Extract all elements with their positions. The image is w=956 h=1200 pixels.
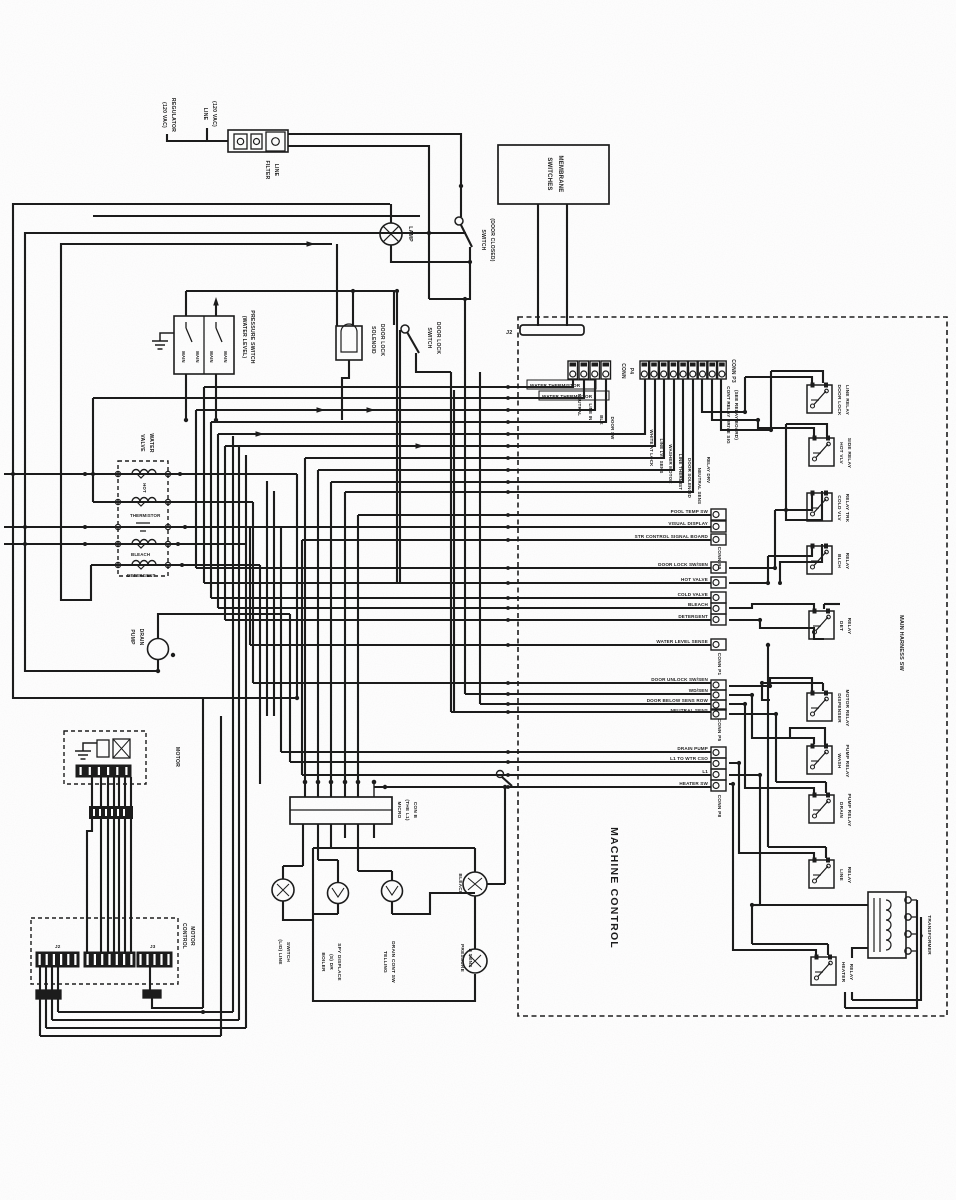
pressure switch contacts [186, 322, 222, 342]
wire P3-7 to relay K1 [702, 379, 745, 412]
svg-text:DETERGENT: DETERGENT [127, 573, 156, 578]
wire bleach to pressure sensor [474, 896, 476, 949]
wire to K3 pin 2 [786, 491, 822, 520]
junction bottom rail [201, 1010, 205, 1014]
svg-text:LINE: LINE [202, 108, 208, 121]
svg-text:L1 TO WTR CSO: L1 TO WTR CSO [670, 756, 708, 761]
bleach sensor [463, 872, 487, 896]
pressure switch bottom pins [185, 374, 187, 420]
svg-text:WD/SEN: WD/SEN [689, 688, 709, 693]
svg-text:DOOR SW: DOOR SW [610, 417, 615, 441]
junction arrow 2 [367, 407, 376, 413]
wire P4-3 [196, 379, 595, 410]
wire P4-4 [211, 379, 606, 422]
motor controller strip J3 [137, 952, 172, 967]
svg-text:SWITCH: SWITCH [426, 328, 432, 349]
signal wire y712 [451, 711, 711, 713]
bus wire X2 [453, 390, 455, 712]
svg-text:BLEACH: BLEACH [688, 602, 709, 607]
svg-text:HEATER: HEATER [840, 962, 846, 983]
junction arrow 5 [416, 443, 425, 449]
relay K8 [809, 795, 834, 823]
wire K1 contact feed [771, 371, 823, 383]
bus wire J to micro connector [344, 492, 346, 797]
junction L1 corner [295, 696, 299, 700]
wire P1-2 to K4 [729, 582, 768, 584]
svg-text:WASHER MOTOR: WASHER MOTOR [668, 444, 673, 484]
svg-text:CONN P1: CONN P1 [716, 653, 722, 676]
svg-text:SIDE RELAY: SIDE RELAY [846, 438, 852, 469]
wire to K4 pin 2 [780, 544, 822, 583]
wire from line label [206, 128, 208, 141]
drain motor switch [382, 881, 403, 902]
svg-text:RELAY: RELAY [844, 553, 850, 570]
svg-text:(WATER LEVEL): (WATER LEVEL) [241, 316, 247, 359]
svg-text:RELAY: RELAY [846, 618, 852, 635]
svg-text:MAIN: MAIN [195, 351, 200, 363]
connector P5 [711, 680, 726, 690]
wire P4-1 to water thermistor line [204, 379, 573, 387]
svg-text:MAIN: MAIN [181, 351, 186, 363]
wire to bleach sensor [392, 893, 475, 914]
svg-text:B SENS: B SENS [467, 948, 473, 968]
svg-text:PUMP RELAY: PUMP RELAY [844, 745, 850, 779]
svg-text:RELAY: RELAY [846, 867, 852, 884]
svg-text:MOTOR: MOTOR [189, 926, 195, 946]
machine control board dashed outline [518, 317, 947, 1016]
svg-text:(S) DR: (S) DR [328, 954, 334, 970]
svg-text:BLCH: BLCH [836, 554, 842, 568]
bus wire V [479, 372, 481, 704]
svg-text:HOT VALVE: HOT VALVE [681, 577, 708, 582]
wire door lock switch bottom [416, 353, 451, 372]
wire P1-1 to K3 [729, 567, 775, 569]
svg-text:CONN P8: CONN P8 [716, 795, 722, 818]
bus wire B [92, 398, 94, 502]
wire bottom loop top [313, 847, 475, 849]
bus wire Q [280, 527, 282, 752]
svg-text:MOTOR RELAY: MOTOR RELAY [844, 689, 850, 727]
svg-text:NEUTRAL SENS: NEUTRAL SENS [671, 708, 708, 713]
signal wire y608 [218, 607, 711, 609]
svg-text:TRANSFORMER: TRANSFORMER [926, 915, 932, 955]
wire to K5 pin [729, 604, 814, 609]
wire K6 pin 2 [822, 683, 824, 691]
wire rail riser 4 [57, 999, 59, 1012]
svg-text:CONN P5: CONN P5 [716, 719, 722, 742]
wire rail riser 2 [45, 999, 47, 1028]
svg-text:MOTOR: MOTOR [174, 747, 180, 767]
ground symbol [160, 333, 174, 341]
svg-text:DRAIN: DRAIN [138, 629, 144, 646]
trunk wire to bottom rail 3 [245, 455, 247, 1028]
relay K4 [807, 546, 832, 574]
trunk wire to bottom rail 1 [232, 436, 234, 1012]
bus wire C [195, 410, 197, 568]
svg-text:J3: J3 [150, 944, 156, 949]
motor pin strip [76, 765, 131, 777]
wire transformer secondary 1 [845, 900, 917, 1008]
svg-text:J2: J2 [506, 330, 512, 336]
svg-text:(120 VAC): (120 VAC) [211, 101, 217, 127]
wire lid switch bottom [283, 901, 313, 920]
wire K8 pin 2 [825, 782, 827, 793]
wire drain pump bottom [157, 660, 159, 671]
wire K2 coil feed [758, 420, 814, 436]
wire drain motor top [391, 871, 393, 880]
svg-text:CONT RELAY DRIVE SIG: CONT RELAY DRIVE SIG [726, 386, 731, 444]
svg-text:MACHINE CONTROL: MACHINE CONTROL [608, 827, 620, 949]
wire P5-2 to K7 [729, 695, 814, 744]
wire filter to junction [288, 146, 429, 299]
pressure switch top pins [215, 302, 217, 316]
svg-text:DETERGENT: DETERGENT [678, 614, 708, 619]
door closed switch [455, 217, 463, 225]
motor controller dashed box [31, 918, 178, 984]
wire lamp top [390, 204, 392, 223]
svg-text:LINE: LINE [838, 869, 844, 881]
svg-text:LINE RELAY: LINE RELAY [844, 385, 850, 416]
wire transformer stub [844, 992, 846, 1008]
wire K6 aux [762, 683, 770, 700]
bus wire O [266, 481, 268, 716]
svg-text:SPY DISPLACE: SPY DISPLACE [336, 943, 342, 981]
svg-text:MAIN: MAIN [223, 351, 228, 363]
svg-text:RELAY: RELAY [848, 964, 854, 981]
junction to loop [313, 913, 338, 915]
svg-text:DOOR LOCK: DOOR LOCK [379, 324, 385, 357]
relay K3 [807, 493, 832, 521]
wire transformer secondary 2 [852, 917, 921, 1000]
bus wire M [252, 502, 254, 683]
water valve junction dots [83, 472, 87, 476]
micro bar top stubs [304, 782, 306, 797]
bus wire P [273, 491, 275, 716]
svg-text:BLEACH: BLEACH [131, 552, 150, 557]
wire P3-4 [318, 379, 674, 470]
signal wire y645 [250, 644, 711, 646]
svg-text:DOOR LOCK: DOOR LOCK [836, 384, 842, 415]
bus wire K to micro connector [357, 515, 359, 797]
svg-text:NEUTRAL SENS: NEUTRAL SENS [697, 468, 702, 504]
wire filter to door closed switch [288, 134, 461, 217]
signal wire y683 [253, 682, 711, 684]
svg-text:HOT VLV: HOT VLV [838, 442, 844, 464]
bus wire N [259, 565, 261, 784]
svg-text:(SEE RELAY BOARD): (SEE RELAY BOARD) [734, 390, 739, 440]
relay K2 [809, 438, 834, 466]
bus wire F [224, 446, 226, 620]
junction on line L2 [427, 231, 431, 235]
pressure sensor [463, 949, 487, 973]
svg-text:HOT: HOT [142, 483, 147, 493]
svg-text:CONN: CONN [620, 363, 626, 379]
svg-text:DOOR LOCK: DOOR LOCK [435, 322, 441, 355]
svg-text:THERMISTOR: THERMISTOR [130, 513, 161, 518]
signal wire y620 [225, 619, 711, 621]
svg-text:J2: J2 [55, 944, 61, 949]
wire lamp bottom to switch drop [391, 245, 470, 262]
line filter FL1 [228, 130, 288, 152]
junction arrow 3 [307, 241, 316, 247]
bottom rail 2 [52, 1019, 239, 1021]
svg-text:(LID) LINE: (LID) LINE [277, 939, 283, 965]
soap dispenser motor [328, 883, 349, 904]
svg-text:SWITCHES: SWITCHES [546, 157, 552, 190]
wire membrane to J2 ribbon 2 [566, 204, 568, 326]
svg-text:(THE L1): (THE L1) [404, 799, 410, 821]
wire P4-2 to water thermistor line 2 [93, 379, 584, 398]
svg-text:CON B: CON B [412, 802, 418, 819]
signal wire y694 [465, 693, 711, 695]
trunk wire L2 [25, 233, 466, 671]
pressure switch box [174, 316, 234, 374]
svg-text:PUMP: PUMP [129, 629, 135, 645]
signal wire y762 [290, 761, 711, 763]
svg-text:DISPENSER: DISPENSER [836, 693, 842, 723]
membrane switches box [498, 145, 609, 204]
svg-text:BOILER: BOILER [320, 952, 326, 972]
svg-text:DRAIN: DRAIN [838, 802, 844, 819]
bus wire D [210, 422, 212, 598]
label WATER THERMISTOR 2 [539, 391, 609, 400]
wire K7 pin 2 [824, 738, 826, 744]
bus wire H to micro connector [317, 470, 319, 797]
svg-text:REGULATOR: REGULATOR [170, 98, 176, 132]
wire K9 pin 2 [825, 847, 827, 858]
svg-text:(DOOR CLOSED): (DOOR CLOSED) [489, 218, 495, 261]
bottom rail 1 [58, 1011, 233, 1013]
wire P3-1 [218, 379, 645, 434]
wire P3-5 [331, 379, 683, 482]
svg-text:DOOR BELOW SENS ROW: DOOR BELOW SENS ROW [647, 698, 709, 703]
wire P8-3 to transformer [729, 775, 868, 905]
motor controller aux connector [143, 990, 161, 998]
bus wire G to micro connector [304, 458, 306, 797]
wire door lock switch drop [450, 372, 452, 712]
svg-text:BLEACH: BLEACH [457, 873, 463, 895]
wire P3-6 [345, 379, 693, 492]
svg-text:COLD VALVE: COLD VALVE [678, 592, 708, 597]
svg-text:MAIN HARNESS SW: MAIN HARNESS SW [898, 615, 904, 671]
signal wire y598 [211, 597, 711, 599]
connector P8 [711, 747, 726, 758]
wire valve row 3 [4, 526, 711, 528]
wire valve row 5 [91, 564, 260, 566]
svg-text:LAMP: LAMP [407, 226, 413, 242]
wire P5-1 to K6 [729, 678, 812, 691]
svg-text:SWITCH: SWITCH [285, 942, 291, 962]
wire P1-5 to K5 [729, 620, 824, 639]
motor controller strip J1 [36, 952, 79, 967]
motor controller bottom pins [39, 967, 41, 992]
label WATER THERMISTOR 1 [527, 380, 596, 389]
svg-text:LINE IN: LINE IN [588, 403, 593, 420]
wire to K4 pin [768, 544, 812, 556]
signal wire y583 [204, 582, 711, 584]
signal wire y515 [358, 514, 711, 516]
svg-text:POOL TEMP SW: POOL TEMP SW [671, 509, 709, 514]
wire K2 contact feed [786, 424, 827, 436]
wire to K3 pin [775, 491, 812, 510]
trunk wire to bottom rail 4 [220, 716, 222, 1036]
wire bleach sensor right [487, 883, 505, 885]
motor harness bundle [87, 777, 92, 952]
wire dispenser top [337, 860, 339, 882]
wire from regulator label to line filter [167, 134, 228, 141]
wire P8-4 to K10 [729, 784, 816, 955]
svg-text:SOLENOID: SOLENOID [370, 326, 376, 354]
svg-text:TELLING: TELLING [382, 951, 388, 973]
connector P2 [711, 509, 726, 520]
wire rail riser 3 [51, 999, 53, 1020]
wire P3-9 to relay K2 bus [721, 379, 771, 430]
label motor harness [89, 806, 133, 819]
wire J3 drop [149, 967, 151, 990]
signal wire y527 [4, 526, 711, 528]
micro bar bottom drops [302, 824, 304, 866]
signal wire y568 [196, 567, 711, 569]
svg-text:LINE: LINE [273, 164, 279, 177]
svg-text:CONN P3: CONN P3 [730, 359, 736, 383]
relay K5 [809, 611, 834, 639]
svg-text:P4: P4 [628, 368, 634, 375]
svg-text:SWITCH: SWITCH [480, 230, 486, 251]
wire bleach sensor top [474, 848, 476, 872]
wire drain motor bottom [391, 901, 393, 914]
svg-text:PUMP RELAY: PUMP RELAY [846, 794, 852, 828]
wire P3-3 [305, 379, 664, 458]
wire valve row 4 [4, 543, 246, 545]
wire door lock solenoid bottom [342, 360, 349, 420]
signal wire y752 [281, 751, 711, 753]
wire door closed switch drop [429, 247, 470, 299]
motor dashed box [64, 731, 146, 784]
svg-text:DRAIN CONT SW: DRAIN CONT SW [390, 941, 396, 983]
bus wire W [396, 291, 398, 583]
signal wire y787 [374, 786, 711, 788]
wire to K5 pin 2 [823, 604, 825, 609]
trunk wire right of motor controller [202, 698, 204, 1008]
signal wire y704 [480, 703, 711, 705]
water valve solenoid coils [132, 470, 156, 475]
wire P8-2 to K9 [729, 763, 814, 858]
junction dots relay zone [743, 410, 747, 414]
wire K10 pin 2 [827, 944, 829, 955]
svg-text:VALVE: VALVE [139, 434, 145, 452]
svg-text:FILTER: FILTER [264, 161, 270, 180]
svg-text:PRESSURE SWITCH: PRESSURE SWITCH [249, 310, 255, 363]
svg-text:MEMBRANE: MEMBRANE [557, 156, 563, 193]
door lock switch [401, 325, 409, 333]
svg-text:MICRO: MICRO [396, 802, 402, 819]
bus wire S [296, 474, 298, 698]
trunk wire L1 [13, 204, 390, 698]
svg-text:WHITE AT LOCK: WHITE AT LOCK [649, 430, 654, 468]
wire transformer primary stub [852, 948, 868, 958]
drain pump [148, 639, 169, 660]
svg-text:L1: L1 [702, 769, 708, 774]
svg-text:VISUAL DISPLAY: VISUAL DISPLAY [668, 521, 708, 526]
bus wire relay column [767, 645, 769, 847]
junction on door switch feed [459, 184, 463, 188]
wire aux to trunk [152, 998, 203, 1008]
water valve dashed box [118, 461, 168, 576]
svg-text:PRESSURE: PRESSURE [459, 944, 465, 973]
svg-text:(120 VAC): (120 VAC) [161, 102, 167, 128]
svg-text:BLK: BLK [599, 415, 604, 425]
motor controller strip J2 [84, 952, 135, 967]
bus wire R [289, 614, 291, 762]
motor internals [83, 743, 97, 751]
micro connector bar [290, 797, 392, 824]
wire rail riser 1 [39, 999, 41, 1036]
transformer T1 [868, 892, 906, 958]
transformer pins [905, 897, 911, 903]
bus wire A [203, 387, 205, 583]
trunk wire to bottom rail 2 [238, 446, 240, 1020]
svg-text:MAIN: MAIN [209, 351, 214, 363]
heater switch [497, 771, 504, 778]
svg-text:HEATER SW: HEATER SW [679, 781, 708, 786]
junction arrow 1 [317, 407, 326, 413]
svg-text:RELAY DRV: RELAY DRV [706, 457, 711, 484]
connector P4 [568, 361, 578, 379]
wire to door lock switch [186, 291, 394, 325]
wire K1 coil feed [745, 377, 812, 383]
wire drain pump top [158, 614, 290, 638]
wire pressure switch to bus [93, 215, 420, 217]
wire P3-8 to relay K2 [712, 379, 758, 420]
water valve pin circles [115, 471, 120, 476]
relay K10 [811, 957, 836, 985]
wire valve row 2 [93, 501, 253, 503]
thermistor symbol [136, 523, 150, 531]
wire P5-3 to K8 [729, 704, 814, 793]
lamp [380, 223, 402, 245]
svg-text:CONTROL: CONTROL [181, 923, 187, 949]
signal wire y540 [302, 539, 711, 541]
svg-text:WASH: WASH [836, 753, 842, 769]
bottom rail 4 [40, 1035, 221, 1037]
bus wire W2 [399, 330, 401, 583]
lid switch sensor [272, 879, 294, 901]
svg-text:COLD VLV: COLD VLV [836, 495, 842, 521]
wire P3-2 [225, 379, 655, 446]
wire L1 heater line [374, 786, 711, 788]
bottom rail 3 [46, 1027, 246, 1029]
bus wire L [249, 527, 251, 645]
junction at drain pump [171, 653, 175, 657]
door lock solenoid [336, 326, 362, 360]
svg-text:DRAIN PUMP: DRAIN PUMP [677, 746, 708, 751]
relay K6 [807, 693, 832, 721]
bus wire U [464, 299, 466, 694]
wire membrane to J2 ribbon [537, 204, 539, 326]
trunk wire L3 [61, 244, 332, 600]
wire dispenser bottom [337, 903, 339, 914]
relay K7 [807, 746, 832, 774]
motor controller output connector [36, 990, 61, 999]
bus wire T [301, 540, 303, 775]
svg-text:WATER LEVEL SENSE: WATER LEVEL SENSE [656, 639, 708, 644]
bus wire I to micro connector [330, 482, 332, 797]
svg-text:STR CONTROL SIGNAL BOARD: STR CONTROL SIGNAL BOARD [635, 534, 709, 539]
connector P1 [711, 562, 726, 573]
ribbon connector J2 [520, 325, 584, 335]
svg-text:WATER: WATER [148, 433, 154, 452]
signal wire y775 [302, 774, 711, 776]
